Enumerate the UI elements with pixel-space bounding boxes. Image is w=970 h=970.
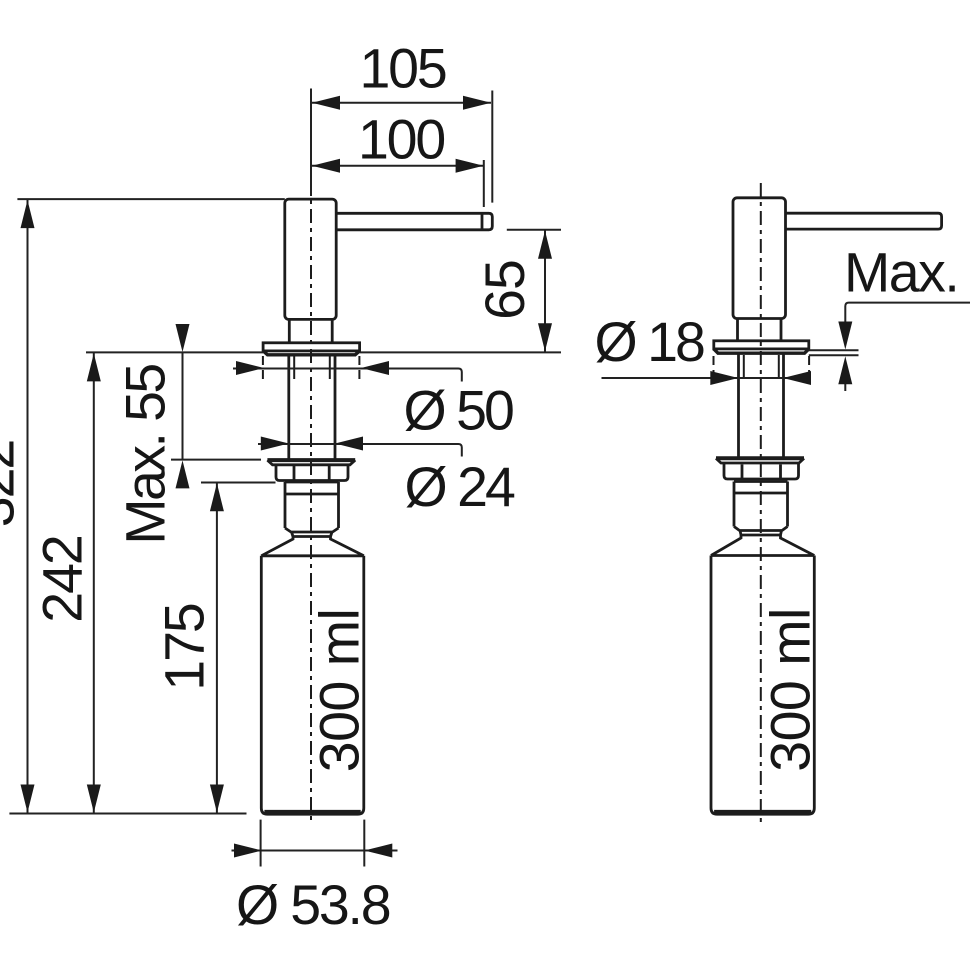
left washer — [267, 458, 355, 462]
right bottle adapter — [734, 482, 788, 536]
dim 175 top boundary — [201, 482, 276, 484]
dim Max55 bottom boundary — [171, 459, 261, 461]
countertop reference line left — [86, 351, 263, 353]
dim Max right flange extension lines — [809, 349, 859, 351]
dim Max right leader — [845, 303, 970, 322]
countertop reference line right — [360, 351, 561, 353]
arrow Max55 top (outside, pointing down) — [176, 324, 190, 352]
svg-text:300 ml: 300 ml — [309, 609, 371, 773]
left dispenser pump head — [285, 199, 336, 319]
arrow Ø50 left (outside, pointing right) — [236, 361, 264, 375]
dim 105/100 left extension (centerline ext) — [310, 89, 312, 197]
arrow 322 bottom — [21, 785, 35, 813]
left bottle body 300 ml — [261, 556, 364, 814]
svg-text:175: 175 — [154, 604, 216, 691]
left threaded tube — [287, 355, 290, 459]
dim 322 line — [27, 199, 29, 813]
dim 105 right extension — [491, 91, 493, 203]
left spout — [336, 213, 492, 230]
svg-text:Max. 55: Max. 55 — [115, 365, 177, 545]
dim 100 right extension — [483, 160, 485, 207]
right neck — [736, 319, 739, 341]
arrow Ø53.8 right — [364, 844, 392, 858]
dim Max55 line — [182, 352, 184, 459]
arrow Ø18 right — [783, 371, 811, 385]
arrow Ø50 right (outside, pointing left) — [361, 361, 389, 375]
right centerline — [760, 183, 762, 824]
dim 242 line — [93, 352, 95, 813]
arrow Max right bottom (pointing up) — [838, 356, 852, 384]
arrow 105 left — [312, 96, 340, 110]
right flange — [714, 341, 809, 349]
arrow Max right top (pointing down) — [838, 322, 852, 350]
arrow 175 bottom — [210, 785, 224, 813]
svg-text:322: 322 — [0, 441, 26, 528]
arrow Ø53.8 left — [234, 844, 262, 858]
right bottle body 300 ml — [711, 556, 814, 815]
left bottle shoulder — [261, 537, 364, 556]
svg-text:242: 242 — [32, 536, 94, 623]
svg-text:Ø 50: Ø 50 — [404, 380, 513, 442]
arrow Ø24 left — [261, 437, 289, 451]
right washer — [716, 456, 804, 460]
svg-text:Ø 24: Ø 24 — [405, 456, 515, 518]
dim 65 top boundary — [507, 229, 561, 231]
arrow Ø18 left — [710, 371, 738, 385]
arrow 175 top — [210, 483, 224, 511]
dim 65 line — [544, 230, 546, 352]
svg-text:105: 105 — [360, 38, 446, 100]
svg-text:300 ml: 300 ml — [760, 608, 822, 772]
right spout — [786, 213, 942, 229]
dim Ø53.8 line — [232, 850, 398, 852]
dim Max right lower tail — [844, 384, 846, 391]
dim 322 top extension line — [17, 198, 284, 200]
right threaded tube — [737, 353, 740, 458]
arrow 100 right — [456, 159, 484, 173]
arrow Ø24 right — [335, 437, 363, 451]
arrow Max55 bottom (outside, pointing up) — [176, 460, 190, 488]
right hex nut — [724, 463, 799, 479]
arrow 65 top — [538, 231, 552, 259]
ground baseline — [9, 813, 246, 815]
right bottle shoulder — [711, 535, 814, 556]
arrow 242 bottom — [87, 785, 101, 813]
arrow 242 top — [87, 353, 101, 381]
arrow 105 right — [463, 96, 491, 110]
arrow 100 left — [312, 159, 340, 173]
dim Ø18 line — [602, 377, 812, 379]
dim Ø24 line — [258, 444, 462, 457]
left hex nut — [276, 465, 348, 481]
svg-text:65: 65 — [474, 260, 536, 320]
left spout outlet divider — [481, 213, 484, 230]
right dispenser pump head — [733, 198, 786, 319]
svg-text:Ø 18: Ø 18 — [595, 311, 704, 373]
svg-text:Max. 5: Max. 5 — [844, 242, 970, 304]
arrow 322 top — [21, 200, 35, 228]
left centerline — [310, 181, 312, 824]
dim Ø53.8 extension lines — [260, 820, 262, 867]
left bottle adapter — [285, 482, 339, 537]
svg-text:Ø 53.8: Ø 53.8 — [236, 874, 390, 936]
left neck — [288, 319, 291, 342]
svg-text:100: 100 — [358, 109, 444, 171]
arrow 65 bottom — [538, 323, 552, 351]
left flange Ø50 — [263, 343, 360, 351]
dim 100 line — [312, 165, 484, 167]
dim 175 line — [216, 483, 218, 814]
dim Ø50 line — [233, 369, 462, 382]
dim 105 line — [312, 102, 491, 104]
